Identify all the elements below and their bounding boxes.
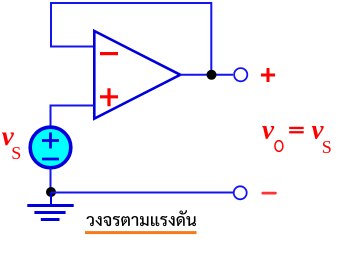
caption Thai text (voltage follower) — [87, 210, 197, 226]
wire op-amp output to positive terminal — [180, 74, 233, 76]
voltage source VS — [30, 127, 71, 168]
op-amp U1 — [94, 31, 180, 119]
wire from source to ground node — [50, 168, 52, 192]
op-amp non-inverting input label + — [100, 88, 118, 106]
equation vO = vS — [262, 115, 332, 157]
svg-text:v: v — [262, 115, 275, 145]
ground — [27, 192, 73, 220]
caption underline — [85, 231, 197, 234]
source label vS — [2, 121, 21, 163]
output node junction dot — [207, 70, 217, 80]
voltage source plus sign — [42, 133, 59, 149]
output terminal minus label — [262, 192, 277, 195]
node junction dot at source bottom — [46, 187, 56, 197]
positive output terminal — [234, 68, 247, 81]
output terminal plus label — [261, 68, 275, 82]
wire bottom rail to negative output terminal — [51, 192, 233, 194]
svg-text:S: S — [11, 143, 21, 163]
svg-text:S: S — [322, 137, 332, 157]
voltage source minus sign — [42, 158, 59, 161]
wire from source to non-inverting input — [51, 106, 95, 128]
op-amp inverting input label - — [100, 52, 118, 55]
negative output terminal — [234, 186, 247, 199]
wire feedback loop from output node to inverting input — [51, 3, 211, 74]
